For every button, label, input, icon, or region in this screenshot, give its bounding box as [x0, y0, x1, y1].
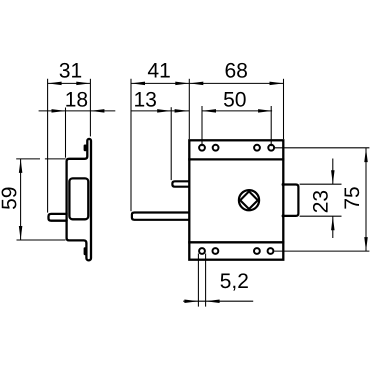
ext line bolt bottom	[300, 215, 342, 217]
top screw hole 1	[199, 145, 205, 151]
dim line 41+68	[131, 82, 284, 84]
bolt joint nub top	[282, 183, 285, 186]
label 5,2	[221, 273, 248, 290]
arrow 41 left	[131, 82, 145, 86]
bottom screw hole 2	[213, 248, 219, 254]
arrow 31 right	[76, 82, 90, 86]
arrow 5,2 left	[184, 299, 198, 303]
side view: keeper box	[69, 178, 88, 219]
dim 59 bottom ext	[17, 239, 66, 241]
side view: bolt tab	[49, 214, 67, 221]
arrow 18 right	[90, 109, 104, 113]
dim 59 top ext	[16, 158, 40, 160]
dim line 31	[48, 82, 91, 84]
arrow 23 bottom	[331, 216, 335, 230]
front view: staple tab	[172, 181, 189, 186]
arrow 13 left	[157, 109, 171, 113]
spindle square	[240, 191, 258, 209]
dim line 18	[39, 110, 116, 112]
ext line bolt tip side view	[47, 79, 49, 213]
dim 23 upper tail	[332, 159, 334, 185]
arrow 13 right	[175, 109, 189, 113]
arrow 75 top	[364, 148, 368, 162]
side view: faceplate + case outline	[67, 139, 91, 260]
ext line plate face	[89, 79, 91, 137]
ext line bottom holes row	[274, 250, 369, 252]
front view: left slide bar	[132, 213, 189, 220]
arrow 18 left	[52, 109, 66, 113]
bottom screw hole 4	[268, 248, 274, 254]
ext line case left	[65, 108, 67, 158]
side view: top clip	[84, 145, 87, 152]
arrow 31 left	[48, 82, 62, 86]
front view: right bolt head	[283, 185, 298, 216]
case top edge extension	[45, 158, 66, 160]
arrow 23 top	[331, 170, 335, 184]
dim 5,2 line	[183, 300, 253, 302]
arrow 50 left	[202, 109, 216, 113]
arrow 5,2 right	[206, 299, 220, 303]
arrow 68 right	[270, 82, 284, 86]
ext line staple left	[170, 107, 172, 180]
side view: bottom clip	[84, 247, 87, 255]
bottom screw hole 1	[199, 248, 205, 254]
arrow 59 bottom	[19, 226, 23, 240]
label 68	[226, 63, 247, 78]
label 23	[313, 191, 328, 212]
dim line 75	[365, 148, 367, 251]
ext line slide bar tip	[130, 79, 132, 212]
label 31	[60, 63, 82, 78]
dim line 13	[131, 110, 190, 112]
dim line 59	[20, 159, 22, 240]
label 13	[135, 92, 156, 107]
label 41	[148, 63, 170, 77]
label 75	[345, 187, 360, 208]
arrow 75 bottom	[364, 237, 368, 251]
bolt joint nub bottom	[282, 214, 285, 217]
dim 23 lower tail	[332, 216, 334, 238]
arrow 41 right	[175, 82, 189, 86]
ext line body right	[283, 79, 285, 139]
label 59	[2, 188, 17, 210]
front view: lock body	[189, 140, 283, 259]
ext line hole left edge	[197, 254, 199, 307]
dim line 50	[202, 110, 272, 112]
front view: top plate line	[188, 158, 284, 160]
ext line top hole4	[270, 106, 272, 146]
spindle circle	[239, 190, 259, 210]
top screw hole 2	[213, 145, 219, 151]
ext line top hole1	[201, 106, 203, 146]
front view: bottom plate line	[188, 241, 284, 243]
top screw hole 4	[268, 145, 274, 151]
bottom screw hole 3	[254, 248, 260, 254]
top screw hole 3	[254, 145, 260, 151]
arrow 59 top	[19, 159, 23, 173]
arrow 50 right	[258, 109, 272, 113]
ext line hole right edge	[205, 254, 207, 307]
label 18	[66, 92, 87, 107]
label 50	[224, 92, 246, 107]
ext line body left	[188, 79, 190, 139]
arrow 68 left	[189, 82, 203, 86]
ext line top holes row	[275, 147, 370, 149]
ext line bolt top	[300, 183, 342, 185]
